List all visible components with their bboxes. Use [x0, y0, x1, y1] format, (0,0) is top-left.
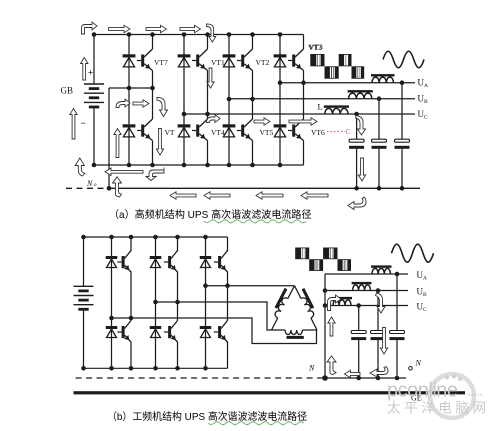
svg-text:VT: VT — [165, 128, 175, 137]
svg-text:VT3: VT3 — [308, 43, 322, 52]
svg-text:VT4: VT4 — [211, 128, 225, 137]
svg-text:N: N — [86, 179, 93, 188]
svg-text:GB: GB — [60, 86, 73, 96]
svg-text:A: A — [424, 83, 428, 89]
svg-text:VT2: VT2 — [256, 58, 270, 67]
svg-text:N: N — [415, 359, 422, 368]
svg-text:pconline: pconline — [387, 380, 458, 402]
svg-text:+: + — [88, 68, 93, 78]
svg-text:C: C — [346, 127, 351, 136]
svg-text:C: C — [424, 115, 428, 121]
svg-text:（b）工频机结构 UPS 高次谐波滤波电流路径: （b）工频机结构 UPS 高次谐波滤波电流路径 — [107, 410, 307, 423]
svg-text:o: o — [94, 182, 97, 188]
svg-text:.com.cn: .com.cn — [467, 392, 483, 397]
svg-text:N: N — [308, 364, 315, 373]
svg-text:太平洋电脑网: 太平洋电脑网 — [387, 401, 490, 416]
svg-text:C: C — [423, 307, 427, 313]
svg-text:A: A — [423, 276, 427, 282]
svg-text:VT6: VT6 — [311, 128, 325, 137]
svg-text:L: L — [318, 102, 323, 112]
svg-text:B: B — [424, 99, 428, 105]
svg-text:（a）高频机结构 UPS 高次谐波滤波电流路径: （a）高频机结构 UPS 高次谐波滤波电流路径 — [109, 208, 312, 221]
svg-text:VT1: VT1 — [211, 58, 225, 67]
svg-text:B: B — [423, 292, 427, 298]
svg-text:−: − — [81, 118, 86, 128]
svg-text:VT7: VT7 — [154, 58, 168, 67]
svg-text:VT5: VT5 — [260, 128, 274, 137]
